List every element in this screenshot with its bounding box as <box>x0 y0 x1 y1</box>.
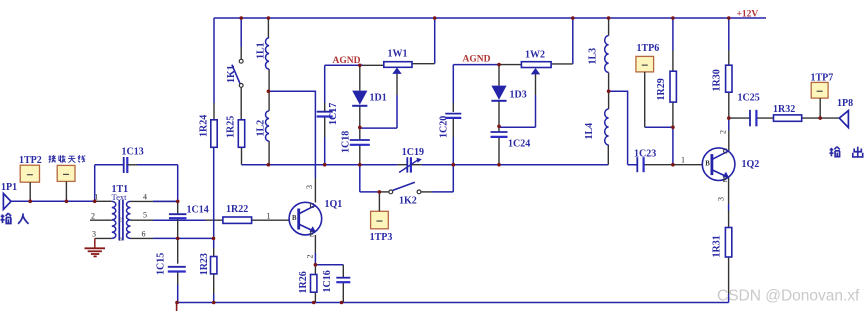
wire 1D3 top stub <box>498 65 500 86</box>
wire 1W1 right lead <box>412 63 435 65</box>
text 输入 (input) <box>0 213 11 223</box>
wire C13 branch riser <box>94 165 96 202</box>
wire 1TP3 stub <box>378 192 380 211</box>
svg-text:2: 2 <box>119 217 122 224</box>
wire pin5 net to R22 <box>153 219 206 221</box>
wire 1W2 wiper link <box>499 95 536 127</box>
wire C17 to main row <box>324 137 326 165</box>
wire 1TP7 stub <box>819 98 821 118</box>
svg-text:1L1: 1L1 <box>256 42 267 59</box>
wire C19 right pin <box>411 164 422 166</box>
svg-text:1R31: 1R31 <box>712 235 723 257</box>
svg-text:1K2: 1K2 <box>399 195 417 206</box>
wire Q1 emitter to node <box>314 253 316 265</box>
resistor 1R31 <box>725 228 731 258</box>
svg-text:1R22: 1R22 <box>226 204 248 215</box>
wire K2 bypass left riser <box>359 165 361 192</box>
svg-text:3: 3 <box>717 197 726 201</box>
svg-text:5: 5 <box>143 211 147 220</box>
wire R24 top pin <box>213 103 215 120</box>
wire R26 bottom pin <box>314 292 316 302</box>
wire L3L4 tap to C23 <box>609 91 638 165</box>
junction AGND1/D1 <box>358 64 362 68</box>
wire R29 top pin <box>672 51 674 72</box>
wire C20 lower link <box>452 137 454 165</box>
wire C16 top pin <box>342 265 344 277</box>
wire C17 top pin <box>324 103 326 111</box>
svg-text:2: 2 <box>719 130 728 134</box>
svg-text:1C19: 1C19 <box>402 147 424 158</box>
svg-text:1TP3: 1TP3 <box>370 232 393 243</box>
svg-text:1: 1 <box>681 155 685 164</box>
wire C19 left pin <box>398 164 407 166</box>
wire R32 to port 1P8 <box>802 117 840 119</box>
capacitor 1C17 <box>317 111 333 113</box>
wire L4 bottom pin <box>607 145 609 165</box>
wire Q2 collector pin <box>728 130 730 151</box>
junction pin4/C14 <box>176 200 180 204</box>
svg-text:1Q1: 1Q1 <box>325 199 343 210</box>
wire main row left <box>242 164 398 166</box>
junction bus/C16 <box>340 301 344 305</box>
junction bus/1K1 <box>239 16 243 20</box>
svg-text:2: 2 <box>306 255 315 259</box>
test point 1TP2 <box>20 165 39 182</box>
junction bus/R23 <box>212 301 216 305</box>
junction bus/R26 <box>312 301 316 305</box>
junction input/TP2 <box>28 200 32 204</box>
svg-text:1C18: 1C18 <box>341 131 352 153</box>
capacitor 1C13 <box>123 157 125 173</box>
diode 1D3 <box>491 86 506 100</box>
junction row/C20 <box>452 163 456 167</box>
wire Q2 emitter link <box>728 204 730 211</box>
resistor 1R25 <box>238 120 244 148</box>
svg-text:1R32: 1R32 <box>773 104 795 115</box>
wire C24 bottom pin <box>498 137 500 164</box>
svg-text:1W1: 1W1 <box>388 49 408 60</box>
svg-text:AGND: AGND <box>333 56 361 66</box>
wire R26 top pin <box>314 265 316 275</box>
wire 1TP6 stub <box>644 72 646 127</box>
svg-text:AGND: AGND <box>463 55 491 65</box>
wire C13 right lead <box>137 164 178 166</box>
wire L3 bottom pin <box>608 73 610 92</box>
svg-text:1R29: 1R29 <box>656 78 667 100</box>
svg-text:1C15: 1C15 <box>156 253 167 275</box>
wire R31 top pin <box>728 211 730 228</box>
resistor 1R26 <box>311 275 317 293</box>
svg-text:1R25: 1R25 <box>226 116 237 138</box>
junction bus/1R30 <box>727 16 731 20</box>
capacitor 1C15 <box>168 266 186 268</box>
wire 1W1 left pin <box>363 64 384 66</box>
wire bottom bus <box>177 302 729 304</box>
svg-text:1R26: 1R26 <box>298 271 309 293</box>
wire L1 bottom pin <box>268 69 270 91</box>
wire R22 right pin to Q1 base <box>252 219 290 221</box>
switch 1K1 <box>239 59 243 63</box>
svg-text:1D3: 1D3 <box>510 90 527 101</box>
junction row/C17 <box>323 163 327 167</box>
wire L2 top pin <box>268 91 270 111</box>
capacitor 1C23 <box>636 157 638 172</box>
wire L4 top pin <box>608 91 610 109</box>
wire C14 top pin <box>177 201 179 214</box>
junction row/C18 <box>358 163 362 167</box>
svg-text:B: B <box>292 215 297 222</box>
wire 1K1 top pin <box>240 47 242 59</box>
wire R29 bottom pin <box>672 102 674 127</box>
svg-text:1L3: 1L3 <box>588 48 599 65</box>
capacitor 1C24 <box>491 131 508 133</box>
wire D3 node to C24 <box>498 126 500 131</box>
svg-text:3: 3 <box>92 230 96 239</box>
wire T1 pin2 stub <box>90 219 112 221</box>
svg-text:CSDN @Donovan.xf: CSDN @Donovan.xf <box>717 288 860 305</box>
junction R30/C25/Q2 collector <box>727 116 731 120</box>
junction emitter/R26/C16 <box>314 263 318 267</box>
junction C14-C15/pin6 <box>176 237 180 241</box>
wire AGND row 1 <box>325 64 363 66</box>
wire input net <box>11 200 95 202</box>
wire K2 right pin <box>421 191 432 193</box>
wire R23 to bottom bus <box>213 294 215 303</box>
junction output/TP7 <box>818 116 822 120</box>
wire 1C13 mid <box>127 164 137 166</box>
svg-text:1: 1 <box>267 211 271 220</box>
svg-text:1K1: 1K1 <box>226 65 237 83</box>
svg-text:1D1: 1D1 <box>370 93 387 104</box>
svg-text:1C23: 1C23 <box>634 148 656 159</box>
wire 1W2 riser <box>572 18 574 64</box>
svg-text:6: 6 <box>142 230 146 239</box>
wire C14 C15 column <box>177 165 179 303</box>
junction D3/wiper <box>497 125 501 129</box>
inductor 1L4 <box>605 109 609 145</box>
wire 1W1 wiper link <box>360 95 397 128</box>
junction AGND2/D3 <box>497 63 501 67</box>
port 1P1 <box>3 194 11 210</box>
wire C20 upper pin <box>452 103 454 112</box>
svg-text:+12V: +12V <box>737 10 759 20</box>
wire C20 lower pin <box>452 119 454 137</box>
junction row/C24 <box>497 163 501 167</box>
wire R23 bottom pin <box>213 274 215 294</box>
wire C15 bottom pin <box>177 272 179 285</box>
transformer 1T1 core <box>118 200 120 240</box>
test point 1TP6 <box>636 56 654 72</box>
svg-text:1TP2: 1TP2 <box>19 155 42 166</box>
potentiometer 1W2 <box>521 62 551 68</box>
wire L2 bottom pin <box>268 141 270 165</box>
wire T1 pin3 <box>95 237 112 239</box>
svg-text:1C20: 1C20 <box>439 116 450 138</box>
svg-text:1L2: 1L2 <box>256 120 267 137</box>
wire T1 pin5 row <box>131 219 154 221</box>
test point 1TP3 <box>371 211 389 229</box>
svg-text:1R24: 1R24 <box>199 115 210 137</box>
junction row/L2 <box>267 163 271 167</box>
wire C14 bottom pin <box>177 219 179 264</box>
junction input/C13 branch <box>93 200 97 204</box>
svg-text:1C24: 1C24 <box>508 139 530 150</box>
junction bus/1L1 <box>267 16 271 20</box>
switch 1K2 <box>389 190 393 194</box>
wire 1W1 riser <box>434 18 436 64</box>
svg-text:1L4: 1L4 <box>584 123 595 140</box>
capacitor 1C25 <box>749 110 751 127</box>
resistor 1R22 <box>223 217 252 223</box>
svg-text:1P1: 1P1 <box>1 182 17 193</box>
wire R22 left pin <box>206 219 223 221</box>
wire main row mid <box>422 164 609 166</box>
wire L3 top pin <box>608 18 610 36</box>
wire 1K1 bottom pin <box>240 87 242 120</box>
wire R30 top pin <box>728 50 730 65</box>
wire R24 column from bus <box>213 18 215 103</box>
wire C13 left lead <box>95 164 124 166</box>
wire 1W1 wiper pin <box>396 74 398 95</box>
wire C20 column top <box>452 65 454 103</box>
transformer 1T1 right winding <box>126 201 130 238</box>
resistor 1R30 <box>726 65 732 92</box>
wire L1-L2 tap to Q1 collector <box>268 91 315 178</box>
wire R23 top pin <box>213 248 215 257</box>
wire AGND row 2 <box>453 64 499 66</box>
test point 1TP7 <box>811 82 828 98</box>
junction bus/1W2 <box>571 16 575 20</box>
wire 1D3 bottom stub <box>498 102 500 127</box>
wire 1W2 wiper pin <box>535 74 537 95</box>
junction L3/L4 tap <box>607 89 611 93</box>
wire 1W2 right lead <box>551 63 573 65</box>
wire C17 bottom pin <box>324 117 326 137</box>
test point 接收天线 box <box>57 165 75 181</box>
wire R31 to bottom bus <box>728 294 730 303</box>
inductor 1L2 <box>266 111 270 141</box>
junction bus/1W1 <box>433 16 437 20</box>
wire node to C16 <box>315 264 343 266</box>
wire C17 column top <box>324 65 326 103</box>
port 1P8 <box>839 111 848 128</box>
resistor 1R29 <box>670 71 676 102</box>
wire 1K1 column from bus <box>240 18 242 47</box>
wire R31 bottom pin <box>728 257 730 294</box>
wire R30 column from bus <box>728 18 730 50</box>
svg-text:1C17: 1C17 <box>328 103 339 125</box>
resistor 1R24 <box>211 120 217 148</box>
wire R30 bottom pin <box>728 92 730 118</box>
wire 1D1 bottom stub <box>359 107 361 128</box>
junction D1/wiper <box>358 126 362 130</box>
svg-text:2: 2 <box>91 212 95 221</box>
wire C16 bottom pin <box>342 282 344 302</box>
junction L1/L2 tap <box>267 90 271 94</box>
wire D1 node to C18 <box>359 127 361 139</box>
svg-text:1TP6: 1TP6 <box>637 43 660 54</box>
wire Q1 collector pin <box>314 178 316 203</box>
wire T1 pin4 row <box>131 200 178 202</box>
wire 1W2 left pin <box>499 64 521 66</box>
svg-text:1C16: 1C16 <box>322 270 333 292</box>
capacitor 1C19 variable <box>406 157 408 172</box>
svg-text:1W2: 1W2 <box>525 50 545 61</box>
svg-text:1C25: 1C25 <box>738 93 760 104</box>
junction bus/1R29 <box>671 16 675 20</box>
wire L1 top pin <box>267 18 269 38</box>
resistor 1R23 <box>211 257 217 274</box>
wire Q2 collector link <box>728 118 730 130</box>
wire Q2 emitter pin <box>728 178 730 204</box>
text 输出 (output) <box>829 147 839 157</box>
wire 1D1 top stub <box>359 65 361 90</box>
wire R29 column from bus <box>672 18 674 51</box>
svg-text:Text: Text <box>112 192 128 202</box>
svg-text:B: B <box>705 161 710 168</box>
capacitor 1C20 <box>445 113 461 115</box>
capacitor 1C18 <box>350 139 370 141</box>
junction input/antenna <box>65 200 69 204</box>
svg-text:4: 4 <box>143 193 147 202</box>
inductor 1L1 <box>266 38 270 69</box>
wire Q1 emitter pin <box>314 235 316 253</box>
wire K2 row right <box>432 165 453 192</box>
wire C23 right pin <box>644 164 673 166</box>
wire R29 to Q2 base node <box>672 127 674 165</box>
wire TP6 link <box>645 126 673 128</box>
wire T1 pin6 row <box>131 237 154 239</box>
text 接收天线 (receiving antenna) <box>49 155 56 162</box>
junction row/Q2 base <box>671 163 675 167</box>
wire K2 row left <box>360 191 380 193</box>
svg-text:1R30: 1R30 <box>712 69 723 91</box>
diode 1D1 <box>352 91 367 105</box>
junction pin6/R23 <box>212 237 216 241</box>
wire C18 bottom pin <box>359 145 361 165</box>
svg-text:E: E <box>723 177 728 184</box>
svg-text:1P8: 1P8 <box>837 98 853 109</box>
wire C25 right pin <box>756 117 773 119</box>
svg-text:1R23: 1R23 <box>199 253 210 275</box>
wire T1 pin4 row blue <box>153 200 178 202</box>
wire antenna stub <box>65 181 67 201</box>
ground T1 pin3 <box>94 238 96 248</box>
svg-text:3: 3 <box>119 236 122 243</box>
wire C25 left pin <box>729 117 750 119</box>
resistor 1R32 <box>774 115 802 121</box>
wire R24-R23 link <box>213 147 215 248</box>
svg-text:1C14: 1C14 <box>187 205 209 216</box>
svg-text:1TP7: 1TP7 <box>811 72 834 83</box>
junction K2 row/TP3 <box>378 190 382 194</box>
wire 1TP2 stub <box>29 182 31 201</box>
transistor 1Q2 <box>702 148 735 181</box>
inductor 1L3 <box>605 36 609 73</box>
transformer 1T1 left winding <box>112 201 116 238</box>
svg-text:1C13: 1C13 <box>122 147 144 158</box>
wire pin6 net <box>153 237 214 239</box>
wire T1 pin1 <box>95 200 112 202</box>
capacitor 1C14 <box>169 213 187 215</box>
svg-text:C: C <box>310 203 315 210</box>
svg-text:3: 3 <box>305 185 314 189</box>
junction bottom bus left <box>175 301 179 305</box>
svg-text:C: C <box>723 149 728 156</box>
capacitor 1C16 <box>336 277 350 279</box>
potentiometer 1W1 <box>384 62 412 68</box>
svg-text:1Q2: 1Q2 <box>742 159 760 170</box>
junction bus/1L3 <box>607 16 611 20</box>
transistor 1Q1 <box>289 202 322 235</box>
wire R25 bottom pin <box>241 147 243 164</box>
wire +12V bus <box>214 17 766 19</box>
wire gnd stub below bus <box>176 303 178 311</box>
junction R29/TP6 link <box>671 125 675 129</box>
svg-text:E: E <box>310 232 315 239</box>
wire K2 left pin <box>379 191 389 193</box>
wire Q2 base pin <box>673 164 702 166</box>
